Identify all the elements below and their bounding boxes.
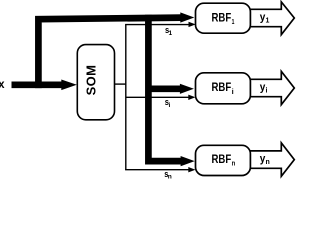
svg-text:1: 1 — [266, 17, 270, 24]
svg-text:y: y — [260, 153, 266, 165]
svg-text:SOM: SOM — [83, 65, 98, 96]
svg-text:n: n — [266, 159, 270, 166]
wire: thick vertical trunk down to RBFn row — [148, 15, 181, 161]
wire: sn line — [125, 169, 189, 171]
block arrow yn — [250, 143, 295, 176]
block RBF1 — [196, 3, 251, 33]
svg-text:i: i — [266, 87, 268, 94]
svg-text:1: 1 — [169, 30, 173, 37]
arrowhead: sn into RBFn — [188, 167, 195, 172]
svg-text:RBF: RBF — [212, 81, 232, 94]
svg-text:n: n — [168, 173, 172, 180]
arrowhead: s1 into RBF1 — [189, 22, 196, 27]
block SOM — [77, 45, 114, 120]
block RBFi — [196, 73, 251, 104]
block arrow yi — [250, 71, 295, 104]
arrowhead: thick into RBF1 — [180, 12, 194, 22]
svg-text:y: y — [260, 12, 266, 24]
arrowhead: si into RBFi — [188, 95, 195, 100]
wire: thick branch up from x-line and top trunk to RBF1 — [38, 18, 182, 89]
svg-text:i: i — [232, 87, 234, 96]
wire: thin vertical bus — [125, 25, 127, 170]
arrowhead: thick into RBFn — [181, 156, 195, 166]
wire: input x thick line into SOM — [12, 81, 64, 88]
svg-text:x: x — [0, 77, 5, 91]
wire: si line — [126, 96, 189, 98]
wire: thick branch to RBFi — [148, 85, 180, 92]
svg-text:RBF: RBF — [212, 12, 232, 25]
wire: s1 line — [125, 24, 189, 26]
svg-text:n: n — [232, 159, 236, 168]
wire: SOM output to bus — [115, 83, 126, 85]
block arrow y1 — [250, 2, 295, 35]
svg-text:y: y — [260, 82, 266, 94]
arrowhead: thick into RBFi — [180, 84, 194, 94]
arrowhead: x into SOM — [61, 80, 77, 91]
svg-text:RBF: RBF — [212, 153, 232, 166]
block RBFn — [196, 145, 251, 175]
svg-text:i: i — [169, 102, 171, 109]
